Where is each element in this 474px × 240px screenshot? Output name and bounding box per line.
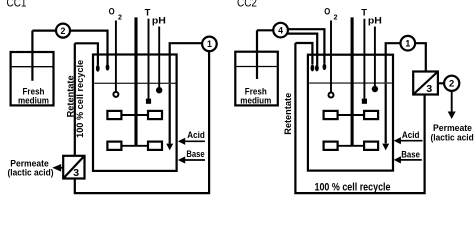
svg-text:2: 2 — [449, 79, 454, 90]
svg-text:T: T — [145, 7, 151, 18]
svg-text:3: 3 — [73, 167, 79, 179]
svg-text:Fig. 1. Scheme of the continuo: Fig. 1. Scheme of the continuous culture… — [3, 211, 465, 213]
svg-text:Base: Base — [401, 149, 420, 159]
svg-text:O: O — [109, 6, 115, 17]
svg-text:2: 2 — [61, 26, 66, 36]
svg-text:Permeate: Permeate — [433, 123, 472, 133]
svg-text:1: 1 — [405, 38, 410, 48]
svg-text:1: 1 — [207, 39, 212, 49]
svg-text:100 % cell recycle: 100 % cell recycle — [315, 181, 391, 193]
svg-text:Acid: Acid — [187, 130, 205, 140]
svg-text:2: 2 — [118, 14, 122, 21]
svg-text:medium: medium — [18, 96, 49, 106]
svg-text:3: 3 — [426, 83, 432, 95]
svg-text:Base: Base — [186, 149, 204, 159]
svg-text:pH: pH — [368, 16, 382, 27]
svg-text:2: 2 — [334, 14, 338, 21]
svg-text:(lactic acid): (lactic acid) — [431, 133, 474, 143]
svg-text:O: O — [324, 6, 330, 17]
svg-text:Acid: Acid — [402, 130, 420, 140]
svg-text:Retentate: Retentate — [283, 93, 293, 135]
svg-text:CC2: CC2 — [237, 0, 257, 9]
svg-text:CC1: CC1 — [7, 0, 27, 9]
svg-text:T: T — [361, 7, 367, 18]
svg-text:medium: medium — [240, 96, 271, 106]
svg-text:100 % cell recycle: 100 % cell recycle — [75, 60, 85, 138]
svg-text:Retentate: Retentate — [65, 75, 75, 117]
svg-text:4: 4 — [278, 25, 283, 35]
svg-text:pH: pH — [152, 16, 166, 27]
svg-text:(lactic acid): (lactic acid) — [8, 168, 54, 178]
